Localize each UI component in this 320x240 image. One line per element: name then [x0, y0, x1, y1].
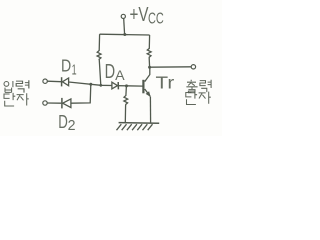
resistor R3 (base to ground): [124, 86, 128, 123]
glyph 단: [4, 93, 15, 106]
diode DA: [112, 82, 119, 89]
label D2: [58, 111, 75, 134]
diode D2: [62, 98, 71, 109]
svg-text:D: D: [105, 61, 116, 83]
svg-text:CC: CC: [148, 10, 164, 27]
VCC terminal: [121, 14, 125, 18]
label output terminal (출력 단자) hand-drawn hangul: [186, 80, 211, 105]
glyph 자: [199, 92, 211, 104]
glyph 자: [17, 93, 29, 105]
wire D2 to node P: [71, 84, 91, 103]
node P junction: [99, 84, 102, 87]
label DA: [105, 61, 126, 83]
node VCC rail junction: [123, 33, 126, 36]
svg-text:D: D: [61, 56, 71, 76]
resistor R1 (left pull-up): [97, 34, 101, 85]
glyph 력 (left): [16, 80, 29, 92]
svg-text:Tr: Tr: [156, 72, 175, 92]
wire DA to base: [118, 85, 142, 87]
glyph 입: [4, 81, 13, 92]
node base-resistor junction: [125, 84, 128, 87]
input terminal 1: [43, 79, 47, 83]
wire collector to output: [150, 66, 192, 68]
glyph 출: [186, 80, 197, 93]
input terminal 2: [43, 101, 47, 105]
wire VCC riser: [123, 19, 126, 35]
node D2 junction: [89, 83, 92, 86]
output terminal: [191, 65, 195, 69]
wire input1 lead: [47, 80, 61, 83]
node collector junction: [148, 66, 151, 69]
wire node P horizontal: [69, 82, 112, 86]
resistor R2 (collector load): [147, 35, 151, 67]
glyph 력 (right): [200, 80, 211, 92]
svg-text:+V: +V: [130, 4, 149, 26]
transistor Q1 Tr: [143, 67, 150, 123]
svg-text:A: A: [115, 67, 125, 83]
svg-text:D: D: [58, 111, 68, 132]
label +VCC: [130, 4, 164, 28]
label input terminal (입력 단자) hand-drawn hangul: [4, 80, 29, 106]
svg-text:2: 2: [68, 117, 76, 134]
wire top rail: [100, 33, 150, 36]
glyph 단: [186, 91, 197, 104]
label D1: [61, 56, 77, 79]
ground: [117, 123, 160, 131]
svg-text:1: 1: [72, 62, 77, 78]
wire input2 lead: [47, 102, 61, 104]
diode D1: [62, 77, 69, 86]
